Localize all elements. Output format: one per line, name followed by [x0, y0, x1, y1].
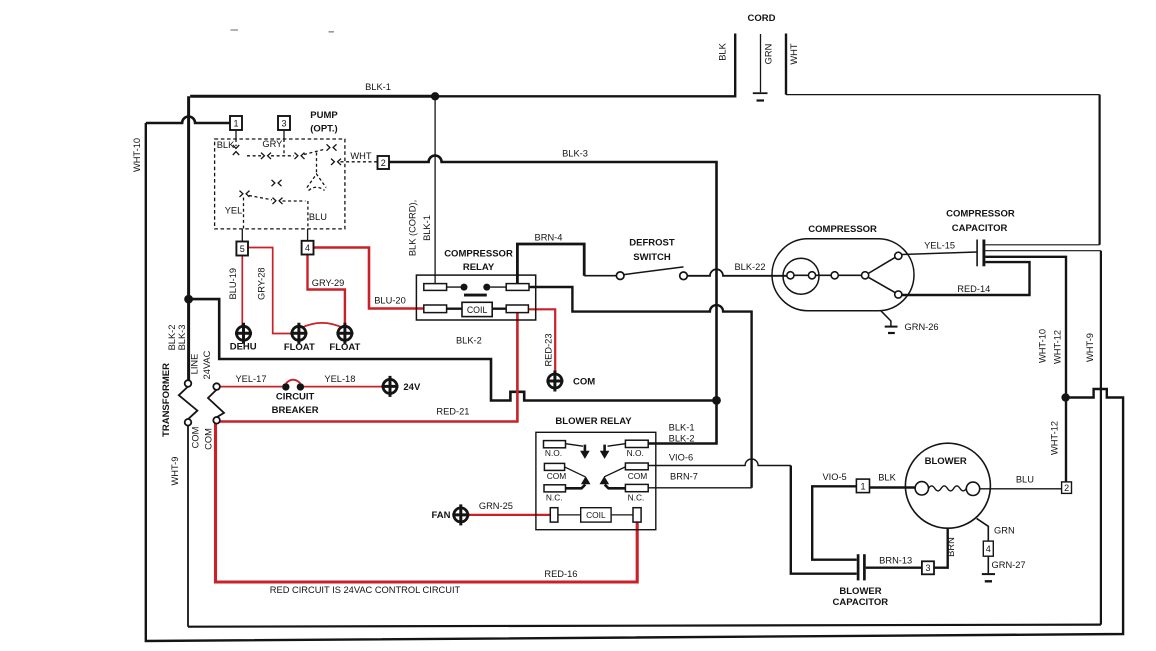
wire RED-23 relay coil to COM terminal — [528, 309, 555, 374]
wire pump feed to terminal 1 (hop over BLK-2) — [146, 117, 230, 123]
splice connector pump YEL right — [273, 198, 283, 204]
splice connector pump centre — [272, 180, 282, 186]
svg-text:CAPACITOR: CAPACITOR — [952, 223, 1008, 234]
compressor relay K1 top-left terminal — [424, 284, 447, 291]
wire VIO-6 blower relay COM to capacitor (hop over BRN-7 riser) — [648, 459, 791, 466]
compressor relay K1 coil-left terminal — [424, 305, 447, 313]
wire pump dashed rise to WHT splice — [304, 149, 326, 155]
svg-text:BLK-1: BLK-1 — [669, 423, 695, 433]
svg-text:VIO-5: VIO-5 — [822, 472, 846, 482]
svg-text:BLU-19: BLU-19 — [228, 268, 238, 300]
svg-text:CORD: CORD — [748, 13, 776, 24]
wire WHT-9 right vertical — [1100, 251, 1102, 625]
terminal box 1 (pump) — [230, 116, 242, 130]
svg-text:2: 2 — [1064, 483, 1069, 493]
wire cord GRN lead — [760, 34, 762, 92]
blower relay K2 enclosure — [536, 432, 656, 529]
blower relay K2 right N.C. terminal — [625, 484, 648, 491]
svg-text:N.C.: N.C. — [546, 492, 563, 502]
svg-text:24V: 24V — [403, 382, 421, 393]
circuit breaker CB1 contacts — [282, 383, 289, 390]
pin compressor terminal S — [895, 252, 902, 259]
splice connector pump GRY — [295, 153, 305, 159]
svg-text:N.O.: N.O. — [627, 448, 644, 458]
transformer T1 secondary winding — [208, 390, 224, 418]
contact K2 left N.O. lead and arrow — [566, 444, 584, 447]
contact K2 left N.C. lead and arrow — [566, 485, 586, 489]
wire BRN-7 into blower relay N.C. — [648, 487, 751, 489]
switch S1 defrost blade — [624, 267, 684, 275]
svg-text:YEL-18: YEL-18 — [324, 374, 355, 384]
transformer T1 primary bottom terminal — [185, 419, 192, 426]
wire K2 coil links — [558, 514, 633, 516]
svg-text:4: 4 — [305, 243, 310, 253]
wire cord WHT lead — [785, 34, 787, 95]
svg-text:FLOAT: FLOAT — [329, 342, 360, 353]
wire compressor case to ground — [881, 311, 891, 326]
wire pump lead from terminal 3 — [283, 130, 285, 139]
svg-text:GRY-29: GRY-29 — [312, 278, 345, 288]
svg-text:CAPACITOR: CAPACITOR — [832, 597, 888, 608]
terminal box 5 (pump YEL) — [236, 242, 248, 256]
terminal COM — [546, 371, 563, 392]
svg-text:VIO-6: VIO-6 — [669, 452, 693, 462]
svg-text:BLK-1: BLK-1 — [422, 215, 432, 241]
wire WHT-9 to transformer primary — [187, 425, 189, 626]
capacitor C1 compressor right plate — [982, 240, 985, 267]
wire K1 coil links — [447, 308, 507, 310]
svg-text:WHT: WHT — [789, 43, 799, 64]
blower relay K2 left N.O. terminal — [544, 441, 566, 448]
splice connector pump BLK — [261, 153, 271, 159]
terminal 24V — [382, 376, 399, 397]
wire pump lead from terminal 1 — [235, 130, 237, 139]
wire GRN blower to terminal 4 — [977, 518, 989, 541]
svg-text:RED-14: RED-14 — [957, 284, 990, 294]
svg-text:CIRCUIT: CIRCUIT — [276, 391, 315, 402]
svg-text:WHT-12: WHT-12 — [1050, 421, 1060, 455]
wire WHT top run to capacitor — [786, 94, 1100, 96]
wire GRY-28 pump terminal 5 to FLOAT — [248, 248, 291, 334]
wire pump YEL dashed diagonal — [249, 196, 306, 202]
splice connector pump WHT upper — [327, 144, 337, 150]
svg-text:BLOWER: BLOWER — [925, 456, 967, 467]
node K1 contact right — [483, 284, 490, 291]
wire WHT drop to compressor capacitor — [1098, 95, 1100, 245]
wire pump motor stem — [316, 153, 318, 174]
node junction BLK-2 at blower relay riser — [712, 396, 721, 405]
wire BLU-19 pump terminal 5 to DEHU — [241, 256, 243, 326]
wire RED-16 transformer COM to blower relay coil — [216, 423, 638, 583]
svg-text:BLK: BLK — [878, 473, 896, 483]
wire BLK-1 to cord BLK terminal — [435, 34, 735, 97]
blower relay K2 left N.C. terminal — [544, 485, 566, 492]
terminal FLOAT right — [336, 323, 353, 344]
wire pump YEL lead to terminal 5 — [243, 198, 245, 229]
svg-text:COIL: COIL — [586, 510, 606, 520]
switch S1 defrost left contact — [616, 272, 624, 280]
svg-text:BREAKER: BREAKER — [272, 405, 319, 416]
svg-text:1: 1 — [233, 119, 238, 129]
wire FLOAT to FLOAT jumper arc — [302, 323, 343, 328]
svg-text:BLK: BLK — [718, 42, 728, 60]
ground cord GRN earth bars — [753, 92, 768, 94]
wire WHT-10 left side, outer bottom, right riser (hop over WHT-9) — [146, 123, 1123, 641]
transformer T1 secondary top terminal — [213, 383, 220, 390]
blower relay K2 right COM terminal — [625, 463, 648, 470]
splice connector pump WHT lower — [331, 159, 341, 165]
wire BLU blower motor to terminal 2 — [980, 488, 1062, 490]
svg-text:WHT-12: WHT-12 — [1053, 330, 1063, 364]
wire RED-21 relay coil to transformer COM — [217, 313, 517, 422]
contact bar K1 armature — [464, 294, 487, 297]
terminal FLOAT left — [290, 323, 307, 344]
wire BLK-3 from pump terminal 2 to blower relay N.O. (hop over BLK-1) — [389, 156, 717, 444]
svg-text:BLOWER: BLOWER — [839, 586, 881, 597]
switch S1 defrost right contact — [680, 272, 688, 280]
capacitor C2 blower left plate — [857, 554, 860, 580]
compressor relay K1 coil-right terminal — [506, 305, 528, 313]
svg-text:(OPT.): (OPT.) — [310, 124, 337, 135]
svg-text:BLK-3: BLK-3 — [562, 148, 588, 158]
svg-text:RED-16: RED-16 — [544, 569, 577, 579]
contact K2 right N.C. lead and arrow — [605, 485, 626, 489]
svg-text:RED-23: RED-23 — [544, 333, 554, 366]
capacitor C1 compressor left plate — [976, 240, 978, 267]
svg-text:3: 3 — [281, 119, 286, 129]
wire GRN-25 FAN terminal to blower relay coil — [468, 514, 551, 516]
svg-text:WHT-10: WHT-10 — [132, 138, 142, 172]
terminal box 3 (pump) — [278, 116, 290, 130]
compressor M2 housing — [772, 239, 914, 311]
svg-text:YEL-17: YEL-17 — [235, 374, 266, 384]
svg-text:WHT-9: WHT-9 — [1085, 333, 1095, 362]
wire BRN blower motor to terminal 3 — [934, 528, 948, 567]
terminal box 4 (pump BLU) — [302, 241, 314, 255]
terminal FAN — [452, 504, 469, 525]
coil K1 box — [462, 302, 492, 316]
svg-text:YEL-15: YEL-15 — [924, 240, 955, 250]
ground GRN-26 earth bars — [885, 326, 898, 328]
svg-text:WHT: WHT — [350, 151, 371, 161]
svg-text:COMPRESSOR: COMPRESSOR — [808, 224, 877, 235]
svg-text:COM: COM — [628, 471, 648, 481]
wire BLK (CORD) / BLK-1 drop to compressor relay — [434, 96, 436, 283]
svg-text:GRN: GRN — [994, 525, 1015, 535]
contact K2 right N.O. lead and arrow — [608, 444, 626, 447]
splice connector pump YEL left — [240, 191, 250, 197]
svg-text:RELAY: RELAY — [463, 262, 495, 273]
compressor relay K1 enclosure — [416, 275, 535, 320]
svg-text:GRY: GRY — [262, 139, 282, 149]
svg-text:24VAC: 24VAC — [202, 350, 212, 379]
svg-text:BRN: BRN — [946, 537, 956, 557]
wire circuit breaker arc — [286, 380, 301, 384]
transformer T1 primary winding — [179, 387, 198, 420]
blower relay K2 coil-right terminal — [633, 508, 641, 522]
svg-text:DEFROST: DEFROST — [629, 238, 675, 249]
pin compressor terminal internal 3 — [831, 272, 838, 279]
splice connector in pump lead 1 — [233, 145, 239, 155]
svg-text:FLOAT: FLOAT — [284, 342, 315, 353]
wire BLU-20 pump terminal 4 to compressor relay coil — [314, 248, 424, 309]
wire BLK-22 defrost switch to compressor (hop over BLK-3) — [687, 269, 786, 276]
svg-text:COM: COM — [203, 428, 213, 450]
svg-text:COM: COM — [573, 376, 595, 387]
svg-text:BLU: BLU — [1016, 475, 1034, 485]
pump P1 dashed enclosure — [215, 139, 345, 229]
terminal box 1 (blower VIO) — [856, 479, 869, 493]
svg-text:COIL: COIL — [467, 305, 488, 315]
svg-text:BLOWER RELAY: BLOWER RELAY — [555, 416, 632, 427]
wire BLK blower terminal 1 to motor — [870, 486, 916, 489]
terminal box 2 (blower BLU) — [1062, 482, 1072, 494]
wire GRY-29 pump terminal 4 to FLOAT — [308, 255, 345, 326]
svg-text:RED-21: RED-21 — [436, 407, 469, 417]
ground GRN-27 earth bars — [982, 573, 995, 575]
svg-text:DEHU: DEHU — [230, 341, 257, 352]
wire WHT-9 inner bottom run — [188, 625, 1101, 627]
wire WHT-12 capacitor to blower terminal 2 — [985, 257, 1066, 482]
wire compressor internal links — [794, 257, 896, 293]
svg-text:BLK-2: BLK-2 — [456, 336, 482, 346]
svg-text:PUMP: PUMP — [310, 110, 338, 121]
wire pump BLU lead to terminal 4 — [307, 201, 309, 229]
svg-text:GRY-28: GRY-28 — [257, 267, 267, 300]
pin blower motor right — [966, 482, 979, 495]
svg-text:BRN-4: BRN-4 — [535, 233, 563, 243]
svg-text:N.C.: N.C. — [628, 492, 645, 502]
svg-text:COMPRESSOR: COMPRESSOR — [444, 249, 513, 260]
svg-text:2: 2 — [381, 158, 386, 168]
svg-text:GRN-26: GRN-26 — [905, 322, 939, 332]
blower relay K2 coil-left terminal — [550, 508, 558, 522]
wire capacitor to WHT-9 — [985, 250, 1101, 252]
svg-text:4: 4 — [986, 544, 991, 554]
pin compressor terminal C — [787, 272, 794, 279]
pin compressor terminal R — [895, 291, 902, 298]
svg-text:GRN: GRN — [764, 44, 774, 65]
wire K1 contact links — [447, 286, 507, 288]
svg-text:RED CIRCUIT IS 24VAC CONTROL C: RED CIRCUIT IS 24VAC CONTROL CIRCUIT — [270, 585, 461, 595]
svg-text:YEL: YEL — [225, 205, 243, 215]
wire capacitor to cord WHT — [985, 244, 1099, 246]
wire BRN-13 terminal 3 to blower capacitor — [866, 567, 922, 569]
transformer T1 secondary bottom terminal — [213, 417, 220, 424]
svg-text:COMPRESSOR: COMPRESSOR — [946, 208, 1015, 219]
wire BLK-2 / BLK-3 left vertical — [187, 96, 190, 380]
node junction on BLK-1 — [431, 92, 439, 100]
svg-text:BLK (CORD),: BLK (CORD), — [408, 200, 418, 256]
blower motor M3 winding — [929, 486, 967, 491]
pin compressor terminal common point — [862, 272, 869, 279]
svg-text:N.O.: N.O. — [545, 448, 562, 458]
svg-text:5: 5 — [240, 244, 245, 254]
svg-text:BLK: BLK — [217, 140, 235, 150]
wire BLK-1 top run — [190, 95, 435, 98]
svg-text:BLK-3: BLK-3 — [177, 325, 187, 351]
wire YEL-17 transformer to circuit breaker — [220, 386, 282, 388]
node junction WHT-12 / WHT-10 — [1061, 393, 1069, 401]
node junction BLK-2/BLK-3 at transformer — [184, 295, 193, 304]
svg-text:WHT-9: WHT-9 — [170, 457, 180, 486]
svg-text:BRN-7: BRN-7 — [670, 472, 698, 482]
svg-text:GRN-25: GRN-25 — [479, 501, 513, 511]
blower motor M3 housing — [905, 443, 990, 528]
svg-text:WHT-10: WHT-10 — [1037, 329, 1047, 363]
wire VIO-5 branch to blower terminal 1 — [812, 486, 857, 559]
compressor M2 internal protector circle — [783, 258, 819, 294]
blower relay K2 left COM terminal — [544, 463, 564, 470]
svg-text:1: 1 — [860, 481, 865, 491]
svg-text:BLK-2: BLK-2 — [167, 325, 177, 351]
wire GRN-27 terminal 4 to ground — [987, 556, 989, 573]
pump motor M1 dashed housing — [307, 174, 326, 191]
compressor relay K1 top-right terminal — [506, 284, 529, 291]
svg-text:COM: COM — [190, 427, 200, 449]
svg-text:BRN-13: BRN-13 — [879, 556, 912, 566]
terminal box 4 (blower GRN) — [983, 541, 993, 556]
wire YEL-18 breaker to 24V terminal — [304, 386, 383, 388]
svg-text:BLK-2: BLK-2 — [669, 434, 695, 444]
svg-text:3: 3 — [925, 563, 930, 573]
wire pump BLK dashed run — [247, 155, 294, 157]
wire BRN-4 relay to defrost switch — [517, 244, 584, 284]
svg-text:BLK-1: BLK-1 — [365, 82, 391, 92]
wire scan artifact marks — [231, 30, 335, 32]
wire RED-14 capacitor to compressor — [902, 262, 1030, 295]
svg-text:TRANSFORMER: TRANSFORMER — [161, 363, 172, 437]
coil K2 box — [581, 508, 611, 522]
svg-text:FAN: FAN — [432, 510, 451, 521]
blower relay K2 right N.O. terminal — [625, 440, 648, 447]
wire compressor relay switched output down right side (hop over BLK-3) — [529, 287, 752, 488]
wire pump WHT dashed lead to terminal 2 — [341, 161, 378, 163]
contact K2 right COM blade — [604, 467, 625, 477]
svg-text:LINE: LINE — [189, 354, 199, 375]
transformer T1 primary top terminal — [185, 380, 192, 387]
terminal box 2 (pump WHT) — [378, 156, 390, 169]
svg-text:BLU: BLU — [309, 212, 327, 222]
svg-text:BLU-20: BLU-20 — [374, 295, 406, 305]
capacitor C2 blower right plate — [863, 554, 866, 580]
contact K2 left COM blade — [565, 467, 586, 477]
pin compressor terminal internal 2 — [808, 272, 815, 279]
wire BLK-2 from transformer junction to defrost node (hop over RED-21) — [189, 299, 717, 400]
svg-text:SWITCH: SWITCH — [633, 252, 671, 263]
wire YEL-15 compressor to capacitor — [902, 252, 977, 255]
node K1 contact left — [461, 284, 468, 291]
svg-text:BLK-22: BLK-22 — [734, 262, 765, 272]
terminal box 3 (blower BRN) — [922, 561, 934, 574]
svg-text:COM: COM — [547, 471, 567, 481]
terminal DEHU — [235, 323, 252, 344]
svg-text:GRN-27: GRN-27 — [992, 560, 1026, 570]
pin blower motor left — [915, 482, 928, 495]
